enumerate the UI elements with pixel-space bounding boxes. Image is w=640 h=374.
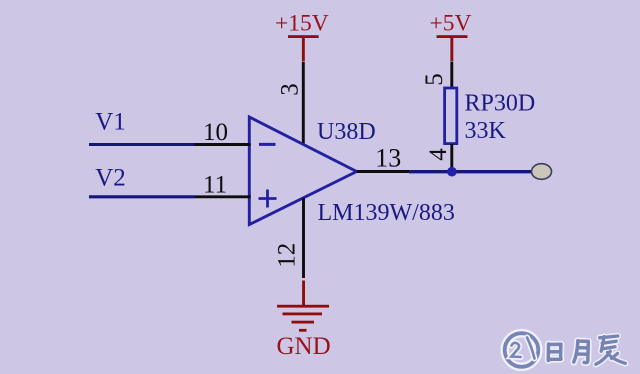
resistor RP30D: [445, 88, 457, 144]
svg-text:U38D: U38D: [317, 119, 376, 145]
junction dot: [447, 167, 457, 177]
inverting input minus: [259, 143, 276, 146]
wire pin 12: [302, 198, 305, 278]
power symbol +15V: [275, 11, 329, 62]
net wire V2: [89, 195, 195, 198]
pin 10 wire: [195, 143, 251, 146]
wire pin 3: [302, 62, 305, 144]
svg-text:33K: 33K: [465, 118, 507, 144]
watermark character YUE: [574, 341, 589, 363]
power symbol +5V: [430, 11, 472, 62]
svg-text:10: 10: [203, 119, 228, 146]
wire pin 5: [450, 62, 453, 89]
op-amp U1 triangle: [249, 117, 356, 225]
svg-text:11: 11: [203, 172, 227, 199]
svg-text:GND: GND: [277, 333, 331, 360]
svg-text:LM139W/883: LM139W/883: [318, 200, 455, 226]
svg-text:+15V: +15V: [275, 11, 329, 37]
svg-text:RP30D: RP30D: [465, 91, 536, 117]
svg-text:V1: V1: [95, 109, 126, 136]
svg-text:12: 12: [273, 243, 300, 268]
non-inverting input plus: [259, 190, 277, 208]
wire pin 4: [450, 144, 453, 170]
net wire V1: [89, 143, 195, 146]
watermark character RI: [548, 344, 561, 361]
svg-text:13: 13: [375, 144, 401, 173]
output net wire: [409, 170, 532, 173]
svg-text:4: 4: [425, 148, 452, 161]
svg-text:3: 3: [276, 83, 303, 96]
watermark character CHEN: [596, 336, 626, 364]
watermark logo circle: [505, 333, 539, 367]
output terminal pad: [532, 164, 552, 180]
svg-text:+5V: +5V: [430, 11, 472, 37]
ground symbol: [277, 281, 329, 332]
svg-text:V2: V2: [95, 165, 126, 192]
pin 11 wire: [195, 195, 251, 198]
pin 13 output wire: [357, 170, 409, 173]
svg-text:5: 5: [421, 73, 448, 86]
